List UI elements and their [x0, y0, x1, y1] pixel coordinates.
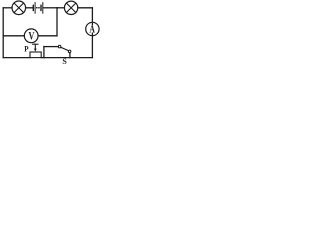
background: [0, 0, 105, 71]
wire lamp L1 to battery: [26, 7, 33, 9]
wire jog vertical: [43, 47, 45, 58]
wire switch drop: [69, 53, 71, 58]
rheostat R (box): [30, 52, 41, 58]
rheostat slider arrow: [33, 44, 38, 51]
wire right rail upper: [91, 8, 93, 25]
switch S: [58, 45, 71, 52]
wire left rail: [2, 8, 4, 58]
wire lamp L2 to top-right corner: [78, 7, 93, 9]
wire right rail lower: [91, 33, 93, 57]
wire voltmeter branch left: [3, 35, 24, 37]
svg-text:P: P: [24, 44, 28, 54]
wire rheostat to jog: [41, 57, 44, 59]
wire voltmeter branch vertical: [56, 8, 58, 36]
wire switch to jog: [44, 46, 58, 48]
wire bottom-right: [44, 57, 93, 59]
ammeter A: [86, 22, 99, 35]
svg-text:V: V: [28, 30, 34, 43]
battery B: [33, 3, 43, 14]
node junction top: [57, 7, 64, 9]
svg-text:A: A: [89, 24, 95, 36]
lamp L2: [64, 1, 77, 14]
wire bottom-left: [3, 57, 30, 59]
svg-text:S: S: [62, 57, 67, 66]
lamp L1: [12, 1, 26, 15]
wire top-left stub: [3, 7, 12, 9]
wire battery to node: [43, 7, 57, 9]
wire voltmeter branch right: [38, 35, 57, 37]
voltmeter V: [24, 29, 38, 43]
